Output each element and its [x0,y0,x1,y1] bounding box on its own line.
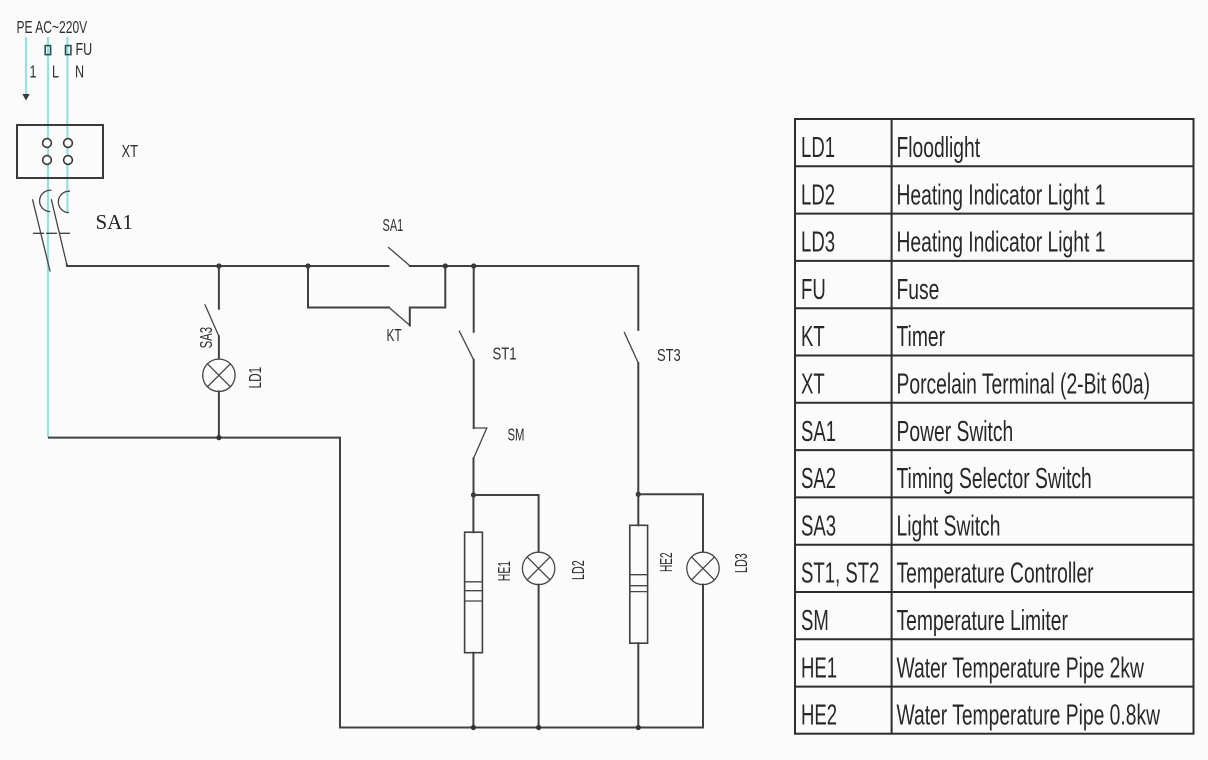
switch SA1 link (dashed) [34,232,73,234]
svg-text:Timing Selector Switch: Timing Selector Switch [897,463,1092,495]
PE ground arrow [22,94,29,101]
svg-text:ST1, ST2: ST1, ST2 [801,558,879,590]
switch SA1 mid blade [388,247,409,265]
node junction LD1 bottom [216,435,221,440]
svg-text:LD3: LD3 [801,227,835,259]
svg-text:SA1: SA1 [801,416,836,448]
switch SA1 blade right [51,200,66,265]
heater HE1 body [465,532,483,653]
svg-text:Light Switch: Light Switch [897,511,1001,543]
legend table row lines [795,165,1194,167]
svg-text:ST1: ST1 [493,345,517,364]
svg-text:KT: KT [801,321,825,353]
svg-text:ST3: ST3 [657,346,681,366]
legend row LD1 [801,132,980,164]
svg-text:LD1: LD1 [801,132,835,164]
wire LD3 to bus end [702,585,704,728]
lamp LD3 [687,552,719,584]
svg-text:PE AC~220V: PE AC~220V [17,18,88,38]
wire PE (cyan) [25,37,27,94]
legend row SM [801,605,1068,637]
wire node to LD3 drop [638,494,703,552]
legend row SA3 [801,510,1000,542]
svg-text:Heating Indicator Light 1: Heating Indicator Light 1 [897,227,1106,259]
svg-text:FU: FU [801,274,826,306]
svg-text:LD2: LD2 [801,179,835,211]
svg-text:LD1: LD1 [246,367,266,389]
svg-text:FU: FU [76,40,93,60]
node junction HE1 bus [471,725,476,730]
node junction at SA3 branch [216,263,221,268]
heater HE1 inner line 2 [465,590,483,592]
svg-text:HE2: HE2 [801,700,837,732]
legend row KT [801,321,945,353]
switch SA3 blade [205,305,219,337]
svg-text:XT: XT [801,368,825,400]
wire SA3 to LD1 [218,336,220,359]
wire HE2 to bus [637,643,639,727]
svg-text:1: 1 [30,62,37,82]
svg-text:XT: XT [122,142,139,162]
svg-text:SM: SM [801,605,829,637]
wire LD1 to bottom node [218,392,220,438]
lamp LD2 [522,552,554,584]
svg-text:HE1: HE1 [801,652,837,684]
timer contact KT notch [410,266,446,326]
svg-text:N: N [75,62,84,82]
node junction LD2 bus [536,725,541,730]
svg-text:Temperature Limiter: Temperature Limiter [897,605,1068,637]
XT terminal circle 4 [64,156,73,165]
node junction at KT branch [305,263,310,268]
svg-text:Fuse: Fuse [897,274,940,306]
switch ST3 blade [624,332,638,363]
limiter SM symbol [474,428,487,458]
legend row LD3 [801,227,1105,259]
timer contact KT blade [389,308,410,326]
node junction HE2 bus [636,725,641,730]
wire ST3 to node [637,363,639,494]
svg-text:SA1: SA1 [383,217,404,236]
XT terminal circle 1 [43,139,52,148]
switch SA1 contact arc right [58,191,69,212]
wire node to LD2 drop [474,495,539,552]
legend row FU [801,274,939,306]
XT terminal circle 3 [43,156,52,165]
fuse FU on N [66,46,71,55]
heater HE2 body [630,525,648,643]
legend row HE2 [801,700,1160,732]
node junction ST1 branch [471,263,476,268]
svg-text:Water Temperature Pipe 0.8kw: Water Temperature Pipe 0.8kw [897,700,1161,732]
wire node to HE2 [637,494,639,525]
node junction KT right [443,263,448,268]
svg-text:Porcelain Terminal (2-Bit 60a): Porcelain Terminal (2-Bit 60a) [897,369,1151,401]
fuse FU on L [45,46,50,55]
heater HE2 inner line 2 [630,585,648,587]
wire LD2 to bus [538,585,540,728]
wire main horizontal bus L1 [67,265,389,267]
legend row ST1 ST2 [801,558,1094,590]
svg-text:HE1: HE1 [496,561,516,581]
legend row HE1 [801,652,1144,684]
wire ST1 to SM [473,360,475,428]
svg-text:SA3: SA3 [196,327,216,348]
svg-text:SM: SM [508,425,525,445]
wire ST1 branch upper [473,266,475,332]
svg-text:Water Temperature Pipe 2kw: Water Temperature Pipe 2kw [897,653,1145,685]
svg-text:HE2: HE2 [657,552,677,572]
node junction HE2/LD3 [636,492,641,497]
legend table column divider [891,119,893,734]
svg-text:LD2: LD2 [569,560,588,580]
wire SA3 branch upper [218,266,220,309]
wire HE1 to bus [472,653,474,728]
switch SA1 contact arc left [40,190,51,211]
heater HE1 inner line 1 [465,581,483,583]
wire SM to node [473,458,475,495]
legend table frame [795,119,1194,734]
wire main horizontal bus right part [410,265,639,267]
wire L (cyan) [47,37,49,438]
heater HE2 inner line 3 [630,591,648,593]
switch ST1 blade [459,331,473,360]
svg-text:Power Switch: Power Switch [897,416,1014,448]
legend row SA2 [801,463,1092,495]
legend row LD2 [801,179,1105,211]
XT terminal circle 2 [64,139,73,148]
terminal block XT box [17,125,103,178]
switch SA1 blade left [33,200,50,271]
svg-text:Timer: Timer [897,321,946,353]
svg-text:L: L [52,62,59,82]
svg-text:SA2: SA2 [801,463,836,495]
node junction HE1/LD2 [471,492,476,497]
wire node to HE1 [472,495,474,532]
wire KT branch left drop [308,266,389,308]
wire left return bottom [49,438,703,728]
legend row SA1 [801,416,1013,448]
wire N (cyan) [66,37,68,212]
svg-text:LD3: LD3 [732,553,751,573]
svg-text:SA1: SA1 [96,210,133,234]
lamp LD1 [203,359,235,391]
heater HE2 inner line 1 [630,574,648,576]
svg-text:Heating Indicator Light 1: Heating Indicator Light 1 [897,180,1106,212]
svg-text:SA3: SA3 [801,510,836,542]
wire ST3 branch drop from main [637,266,639,330]
svg-text:Temperature Controller: Temperature Controller [897,558,1094,590]
svg-text:Floodlight: Floodlight [897,132,981,164]
heater HE1 inner line 3 [465,600,483,602]
legend row XT [801,368,1150,400]
svg-text:KT: KT [387,326,402,346]
